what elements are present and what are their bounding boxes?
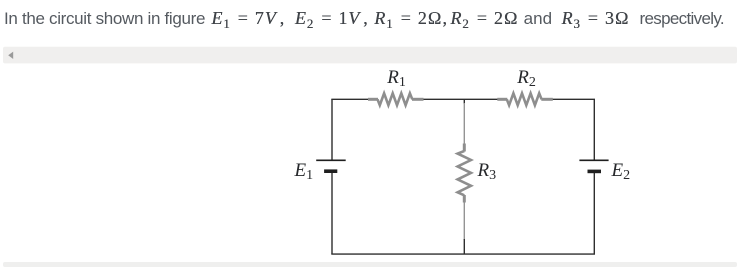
battery E2 (579, 160, 608, 171)
wire: top right segment (R2 to corner) (551, 98, 595, 100)
label E2 (612, 161, 631, 180)
gray toolbar band (3, 47, 737, 64)
wire: middle vertical lower (R3 to bottom) (463, 202, 465, 240)
wire: right vertical (bottom part, below battery E2) (593, 171, 595, 254)
wire: top left segment (corner to R1) (331, 98, 371, 100)
wire: left vertical (top part, above battery E1) (331, 99, 333, 160)
question text (0, 3, 737, 34)
wire: middle vertical bottom dark segment (463, 239, 465, 254)
left scroll arrow icon (8, 52, 13, 59)
wire: right vertical (top part, above battery E2) (593, 99, 595, 160)
resistor R3 (458, 144, 471, 203)
label R2 (517, 68, 536, 87)
node: top junction of middle branch (463, 99, 465, 104)
label R1 (387, 68, 406, 87)
bottom gray strip (3, 262, 737, 267)
wire: top middle segment (R1 to R2 through node) (420, 98, 499, 100)
resistor R1 (368, 93, 424, 105)
wire: bottom horizontal (331, 253, 595, 255)
label R3 (478, 161, 497, 180)
label E1 (295, 161, 314, 180)
wire: middle vertical upper (node to R3) (463, 103, 465, 145)
wire: left vertical (bottom part, below battery E1) (331, 171, 333, 254)
resistor R2 (497, 93, 553, 105)
battery E1 (316, 160, 346, 171)
